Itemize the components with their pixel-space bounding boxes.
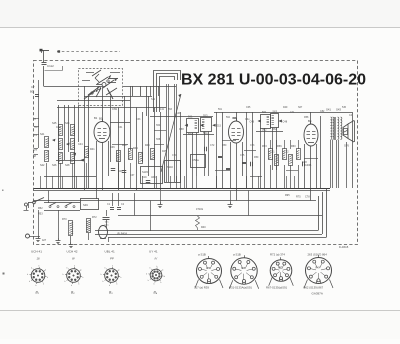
svg-text:S44: S44 [65, 122, 70, 125]
svg-text:b: b [162, 269, 163, 271]
svg-text:C112: C112 [47, 64, 54, 68]
svg-text:UCH 41: UCH 41 [31, 250, 42, 254]
svg-text:b: b [74, 265, 75, 267]
svg-text:427: 427 [42, 239, 47, 242]
svg-text:B₄: B₄ [154, 291, 158, 295]
svg-text:b: b [119, 269, 120, 271]
svg-text:C78: C78 [305, 196, 310, 199]
svg-text:S67: S67 [298, 106, 303, 109]
svg-text:R72: R72 [92, 216, 97, 219]
svg-text:W: W [72, 257, 75, 261]
svg-text:b: b [109, 285, 110, 287]
svg-text:GA397A: GA397A [312, 292, 323, 296]
svg-text:D-406-B: D-406-B [339, 246, 349, 249]
svg-text:R95: R95 [285, 194, 290, 197]
svg-text:b: b [154, 284, 155, 286]
svg-text:4T10k: 4T10k [196, 208, 204, 211]
svg-text:C40B: C40B [305, 164, 312, 167]
svg-text:b: b [47, 277, 48, 279]
svg-text:b: b [63, 274, 64, 276]
svg-text:S145: S145 [142, 171, 148, 174]
svg-text:R70: R70 [62, 218, 67, 221]
svg-text:C4x: C4x [245, 118, 250, 121]
svg-text:S45: S45 [52, 122, 57, 125]
svg-text:141: 141 [160, 108, 165, 111]
svg-text:377: 377 [33, 149, 38, 152]
svg-text:S42: S42 [40, 164, 45, 167]
svg-text:R75: R75 [296, 196, 301, 199]
svg-text:C58a: C58a [192, 158, 199, 162]
svg-text:b: b [31, 267, 32, 269]
svg-text:b: b [148, 280, 149, 282]
svg-text:C71: C71 [290, 111, 295, 114]
svg-text:R56: R56 [277, 145, 282, 148]
svg-text:IM: IM [33, 155, 36, 158]
svg-text:R67-S135(⌀)S91: R67-S135(⌀)S91 [266, 286, 288, 290]
svg-text:R31-S133A(⌀)S91: R31-S133A(⌀)S91 [229, 286, 252, 290]
svg-text:E15: E15 [217, 125, 222, 128]
svg-text:R60: R60 [291, 145, 296, 148]
svg-text:R46: R46 [145, 144, 150, 147]
svg-text:S43: S43 [336, 108, 341, 112]
svg-text:b: b [43, 283, 44, 285]
svg-text:R44: R44 [133, 147, 138, 150]
svg-text:C88: C88 [302, 161, 307, 164]
svg-text:b: b [27, 274, 28, 276]
svg-text:R42: R42 [122, 144, 127, 147]
svg-text:b: b [120, 277, 121, 279]
svg-text:C50: C50 [56, 125, 61, 129]
svg-text:(P) R40/A: (P) R40/A [117, 233, 128, 236]
svg-text:BX 281 U-00-03-04-06-20: BX 281 U-00-03-04-06-20 [181, 72, 366, 89]
svg-text:b: b [156, 266, 157, 268]
svg-text:561: 561 [262, 110, 267, 114]
svg-text:R49: R49 [283, 106, 288, 109]
svg-text:b: b [82, 277, 83, 279]
svg-text:R72 (⌀) 374: R72 (⌀) 374 [270, 253, 285, 257]
svg-text:⌀ S1B: ⌀ S1B [198, 253, 206, 257]
svg-text:C65: C65 [246, 106, 251, 109]
svg-text:R70: R70 [206, 268, 211, 270]
svg-text:561: 561 [218, 108, 223, 111]
svg-text:C69: C69 [112, 107, 117, 111]
svg-text:b: b [146, 273, 147, 275]
svg-text:C58: C58 [179, 128, 184, 131]
svg-text:562: 562 [226, 116, 231, 119]
svg-text:PP: PP [110, 257, 114, 261]
svg-text:TAC: TAC [105, 221, 110, 224]
svg-text:b: b [45, 269, 46, 271]
svg-text:S41: S41 [40, 133, 45, 136]
svg-text:B0: B0 [30, 90, 34, 94]
svg-text:b: b [160, 282, 161, 284]
svg-text:R47: R47 [316, 268, 321, 270]
svg-text:S41: S41 [326, 108, 331, 112]
svg-text:UCH 42: UCH 42 [67, 250, 78, 254]
svg-text:C72: C72 [210, 144, 215, 147]
svg-text:⌀ S1B: ⌀ S1B [233, 253, 241, 257]
svg-text:C7: C7 [31, 85, 35, 89]
svg-text:B62 (S139) 867: B62 (S139) 867 [304, 286, 324, 290]
svg-text:b: b [38, 265, 39, 267]
svg-text:b: b [36, 285, 37, 287]
svg-text:VAC: VAC [105, 224, 110, 227]
svg-text:C41: C41 [270, 151, 275, 154]
svg-text:R47: R47 [278, 268, 283, 270]
svg-text:b: b [64, 281, 65, 283]
svg-text:R40: R40 [201, 226, 206, 229]
svg-text:b: b [116, 283, 117, 285]
svg-text:S28: S28 [241, 268, 246, 270]
svg-text:545: 545 [342, 106, 347, 109]
svg-text:S49: S49 [83, 203, 88, 207]
svg-text:S140: S140 [167, 166, 173, 169]
svg-text:R53: R53 [262, 145, 267, 148]
svg-text:C46: C46 [250, 121, 255, 124]
svg-text:B1: B1 [94, 116, 98, 120]
svg-text:b: b [67, 267, 68, 269]
svg-text:b: b [150, 268, 151, 270]
svg-text:R52: R52 [38, 207, 43, 210]
svg-text:b: b [81, 269, 82, 271]
svg-text:C82: C82 [320, 110, 325, 113]
svg-text:C66: C66 [110, 146, 115, 149]
svg-text:b: b [112, 265, 113, 267]
svg-text:S46: S46 [52, 164, 57, 167]
svg-text:C72: C72 [284, 151, 289, 154]
svg-text:561: 561 [188, 114, 193, 118]
svg-text:R41: R41 [90, 148, 95, 151]
svg-text:b: b [102, 281, 103, 283]
svg-text:S48: S48 [65, 164, 70, 167]
svg-text:553: 553 [203, 113, 208, 117]
svg-text:b: b [78, 283, 79, 285]
svg-text:B₁: B₁ [36, 291, 39, 295]
svg-text:R59: R59 [254, 156, 259, 159]
svg-text:UY 41: UY 41 [149, 250, 158, 254]
svg-text:b: b [105, 267, 106, 269]
svg-text:b: b [164, 276, 165, 278]
svg-text:b: b [29, 281, 30, 283]
svg-text:263 (S167) 864: 263 (S167) 864 [308, 253, 328, 257]
svg-text:16: 16 [37, 257, 41, 261]
svg-text:b: b [101, 274, 102, 276]
svg-text:b: b [71, 285, 72, 287]
svg-text:B4: B4 [308, 119, 312, 123]
svg-text:UBL 41: UBL 41 [105, 250, 115, 254]
svg-text:317 (⌀) R39: 317 (⌀) R39 [194, 286, 209, 290]
svg-text:563: 563 [273, 109, 278, 113]
svg-text:C44: C44 [78, 143, 83, 146]
svg-text:C48: C48 [283, 121, 288, 124]
svg-text:VAC: VAC [151, 176, 156, 179]
